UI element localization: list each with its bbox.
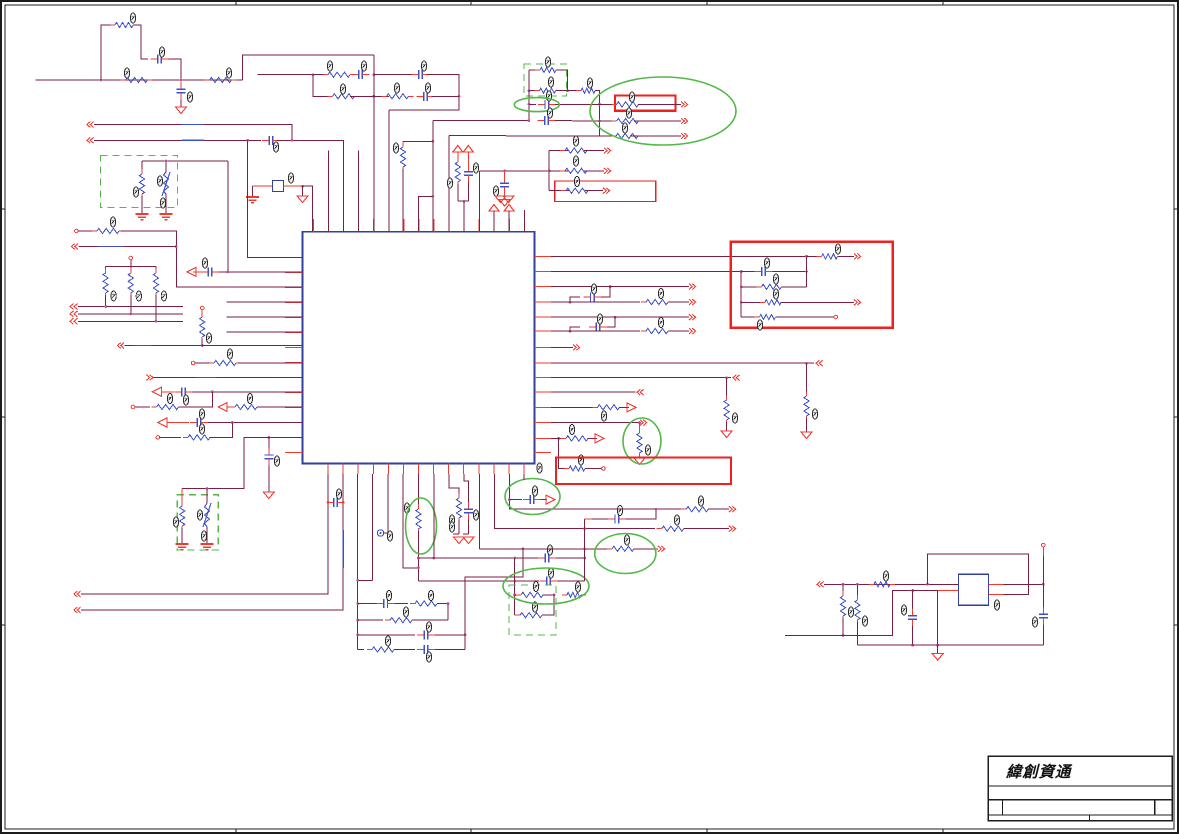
wire rowG gap [600,135,614,137]
ref-label U3 [994,600,999,610]
resistor R4 [323,72,355,77]
wire pull2 a [155,267,157,272]
ref-label L6 [327,61,332,71]
wire vert x584 [584,519,586,581]
wire island right a [1004,583,1044,585]
junction N73 [1042,583,1045,586]
wire net2 row74 left [257,74,313,76]
port-out row528 [729,526,736,532]
resistor R35 [724,395,729,425]
resistor R46 [515,613,547,618]
wire long vertical x374 [373,55,375,232]
node open3 [200,306,204,310]
wire row581 a [418,580,539,582]
ref-label L78 [449,522,454,532]
wire row363 b [238,362,303,364]
ref-label L38 [227,349,232,359]
port-in arrow bus1 [87,122,94,128]
wire hang1 b [806,418,808,432]
wire g2 top a [529,69,540,71]
wire pin448 b [458,520,460,534]
ref-label L31 [473,163,478,173]
wire rrow363 [551,362,814,364]
wire pin418 b [417,531,419,581]
junction N17 [548,169,551,172]
wire rowG [449,135,600,137]
wire sq pin1R red [989,583,1004,585]
arrow-left row407b [218,403,227,412]
wire hang3 a [639,423,641,432]
wire pin448 jog [449,474,459,495]
junction N41 [805,362,808,365]
wire ir1 b [842,618,844,635]
wire rrow3 gap [741,286,758,288]
junction N10 [301,185,304,188]
wire g1 v bottom [165,194,167,213]
wire sq pin2R red [989,594,1004,596]
highlight ellipse small1 [514,98,559,112]
resistor R45 [562,592,586,597]
junction N50 [522,547,525,550]
wire pwr2 down [467,152,469,165]
ref-label L60 [645,445,650,455]
junction N23 [227,271,230,274]
port-out rrow422 [640,420,647,426]
highlight ellipse big1 [590,77,736,145]
ref-label L32 [110,217,115,227]
capacitor C25 [523,495,541,504]
junction N44 [557,437,560,440]
junction N20 [432,195,435,198]
arrow rrow438 [595,434,604,443]
junction N11 [528,89,531,92]
wire long vertical x228 [227,161,229,272]
wire x403 top [402,141,404,144]
wire rbox left vert [740,272,742,318]
highlight red box3 [556,458,731,485]
capacitor C11 [201,267,219,276]
resistor R11 [612,102,644,107]
capacitor C7 [538,100,556,109]
wire vert x313 to row96 [313,75,330,97]
resistor R18 [455,157,460,187]
ref-label L51 [757,320,762,330]
wire midrow2 left [480,170,550,172]
wire bridge518 a [585,518,592,520]
resistor R27 [183,435,215,440]
bus entry arrows [70,304,78,325]
capacitor C19 [417,630,435,639]
ref-label L89 [1032,617,1037,627]
resistor R22 [153,268,158,298]
resistor R41 [385,618,417,623]
wire row528 b [684,528,729,530]
wire rvert x806 [806,256,808,286]
wire row509 a [520,508,686,510]
junction N14 [598,120,601,123]
wire midrow2 a [549,170,568,172]
resistor R12 [612,118,644,123]
wire midrow2 b [584,170,604,172]
junction N67 [856,583,859,586]
resistor R9 [535,88,561,93]
resistor R14 [560,148,592,153]
ref-label L87 [862,616,867,626]
node open8 [602,467,606,471]
resistor R52 [855,595,860,625]
ref-label L62 [578,455,583,465]
title block cell a [1001,800,1003,815]
wire pin509 [508,211,510,232]
wire to gnd arrow [302,186,304,196]
ref-label L14 [157,176,162,186]
component U2 small box [273,181,284,192]
wire rowa left [358,603,377,605]
junction N21 [463,200,466,203]
wire island row2 path [785,591,913,636]
ref-label L50 [773,289,778,299]
ref-label L53 [591,284,596,294]
ref-label L5 [187,92,192,102]
ref-label L79 [624,535,629,545]
junction N26 [155,320,158,323]
connector node blue [377,530,383,536]
resistor R28 [757,284,787,289]
wire row499 a [509,499,522,501]
wire g2 row2 corner down [595,91,600,136]
junction N9 [165,160,168,163]
port-out rrowA [689,284,696,290]
ref-label L25 [573,136,578,146]
resistor R24 [209,360,241,365]
junction N12 [566,89,569,92]
port-in row345 [118,343,125,349]
junction N66 [842,583,845,586]
ref-label L41 [247,394,252,404]
junction N29 [231,421,234,424]
junction N57 [513,580,516,583]
wire row558 a [418,557,538,559]
wire row332 [227,331,303,333]
junction N70 [911,589,914,592]
junction N53 [417,566,420,569]
wire g4 r bot [181,528,183,543]
junction N65 [342,501,345,504]
wire sq to pin313 [303,186,313,232]
wire down to row468 [559,438,568,468]
wire row391 red [161,391,174,393]
ref-label L13 [133,187,138,197]
wire pin494 to row528 [494,474,540,529]
wire row581 b [558,580,585,582]
resistor R19 [92,228,124,233]
port-in row610 [74,607,81,613]
wire rowa corner [437,604,448,621]
ref-label L15 [160,198,165,208]
capacitor C15 [755,267,773,276]
wire vert x449 to pin [448,136,450,232]
ref-label L4 [159,47,164,57]
junction N47 [356,633,359,636]
wire ir1 a [842,584,844,594]
junction N34 [805,255,808,258]
resistor R13 [611,133,643,138]
ref-label L63 [386,591,391,601]
wire group2 feed [182,437,269,488]
wire pin357 vertical [357,474,359,650]
wire row104 d [638,103,681,105]
junction N58 [513,594,516,597]
resistor R21 [128,268,133,298]
port-out midrow2 [604,168,611,174]
ground bars2 [160,213,173,221]
wire rrow1 [551,255,807,257]
wire midrow3 a [549,190,569,192]
junction N42 [725,376,728,379]
port-out rrow347 [573,345,580,351]
ground arrow5 [263,492,274,499]
junction N6 [372,95,375,98]
ref-label L27 [574,177,579,187]
highlight ellipse hang3 [623,418,661,464]
wire rrow3 [782,286,807,288]
net-name V4 [134,345,151,347]
resistor R26 [230,404,262,409]
wire rowc a [358,634,415,636]
resistor R49 [657,526,689,531]
capacitor C9 [500,176,509,194]
wire hang3 b [639,455,641,458]
junction N13 [598,103,601,106]
ref-label L52 [835,244,840,254]
wire pin row257 long vertical [248,140,303,257]
junction N59 [553,594,556,597]
net-name vertical pin343 [342,530,344,568]
wire vert x514 [514,558,516,615]
ref-label L37 [206,333,211,343]
ref-label L65 [403,607,408,617]
wire loop left [101,25,114,80]
capacitor C4 [412,70,430,79]
resistor R50 [681,507,713,512]
junction N38 [569,301,572,304]
wire rrowA [551,286,689,288]
wire gnd island [937,645,939,653]
wire rowE mid [555,120,600,122]
power arrow1 [452,146,463,153]
ref-label L54 [658,289,663,299]
wire b3row1 c [581,594,585,596]
wire pull1 a [130,267,132,272]
resistor R42 [367,647,399,652]
wire pwr bar [458,200,469,202]
wire row363 a [195,362,213,364]
wire bus a [78,306,183,308]
wire pull2 b [155,295,157,321]
ref-label L16 [288,173,293,183]
wire row74 cont [374,74,414,76]
ref-label L30 [447,178,452,188]
wire row549 b [634,548,658,550]
wire row499 b [541,499,547,501]
wire loop corner [133,25,148,59]
svg-text:緯創資通: 緯創資通 [1005,763,1073,781]
wire rrowD b [668,330,689,332]
junction N72 [936,644,939,647]
wire pin464 jog [464,474,469,503]
wire row549 a [479,548,609,550]
wire pwr1 down [457,152,459,160]
ground arrow6 [801,432,812,439]
wire b3row2 a [515,614,519,616]
capacitor C18 [377,599,395,608]
ref-label L70 [404,503,409,513]
title block cell b [1154,800,1156,815]
wire sq right [284,185,303,187]
junction N46 [356,619,359,622]
wire ir2 a [856,584,858,598]
wire g2 top loop [556,70,568,91]
ref-label L7 [361,61,366,71]
ref-label L64 [428,591,433,601]
ref-label L72 [548,568,553,578]
port-out midrow3 [603,188,610,194]
wire island rail [857,644,1043,646]
wire midrow3 b [585,190,603,192]
ref-label GP [537,463,542,473]
resistor R25 [152,404,184,409]
wire row96 to x459 [432,95,459,97]
title block cell c [1088,815,1090,821]
ref-label L71 [547,545,552,555]
net-name V1 [182,124,204,126]
junction N7 [246,139,249,142]
wire g4 v bot [206,527,208,543]
wire midrow1 b [584,150,604,152]
ref-label L45 [173,517,178,527]
wire midrow1 a [549,150,568,152]
wire staircase [465,549,523,650]
wire right vert c [1042,625,1044,645]
ref-label L86 [848,607,853,617]
wire row345 a [125,345,203,347]
capacitor C27 [1039,607,1048,625]
highlight ellipse row499 [505,479,560,515]
wire rrow438 a [551,437,563,439]
wire row468 b [585,468,602,470]
ref-label L10 [394,83,399,93]
resistor R10 [576,88,600,93]
wire rrow392 [551,391,636,393]
ground arrow3a [495,196,506,203]
wire rrowB a [551,301,640,303]
wire row246 [79,246,177,248]
ref-label L11 [425,83,430,93]
resistor R16 [561,188,593,193]
ref-label L85 [883,571,888,581]
wire loop to junction [169,59,182,80]
wire r345 top [201,310,203,315]
ground bars1 [136,213,149,221]
wire row558 b [556,557,585,559]
resistor R23 [200,312,205,342]
wire row104 b [555,103,600,105]
wire b3row2 corner [542,595,554,615]
junction N24 [104,305,107,308]
resistor R47 [456,493,461,523]
wire row104 c [600,103,618,105]
ref-label L48 [764,258,769,268]
resistor R53 [869,582,895,587]
wire right vert b [1042,556,1044,609]
wire rowE left [433,120,529,122]
node open6 [156,436,160,440]
ref-label L12 [273,142,278,152]
ref-label L67 [385,636,390,646]
ground arrow3b [503,196,514,203]
title block row line2 [988,799,1172,801]
ref-label L19 [587,78,592,88]
junction N55 [513,557,516,560]
port-out rrow4 [854,299,861,305]
wire pin524 [523,210,525,232]
resistor R8 [535,67,561,72]
junction N51 [356,579,359,582]
ref-label L20 [546,91,551,101]
resistor R29 [760,300,786,305]
junction N69 [842,634,845,637]
ref-label L17 [545,57,550,67]
wire pin494 [493,211,495,232]
port-out row509 [729,506,736,512]
IC U1 main chip body [303,232,535,464]
wire row437 a [160,436,182,438]
power arrow3 [489,205,500,212]
dashed box group1 [101,156,178,208]
net-name V5 [197,377,216,379]
highlight red box big [731,242,893,328]
ref-label L34 [111,291,116,301]
wire row302 [227,301,303,303]
wire pwr2 bot [467,183,469,202]
resistor R38 [561,436,593,441]
wire rowd mid [394,649,415,651]
wire rowd b [435,649,465,651]
wire sq pin2 red [938,590,959,592]
wire conn jog [384,532,389,534]
wire row437 up [210,423,232,438]
wire hang2 a [726,378,728,398]
junction N37 [609,285,612,288]
junction N61 [583,527,586,530]
ref-label L46 [197,510,202,520]
ref-label L2 [226,68,231,78]
wire row345 b [202,345,302,347]
port-in arrow bus2 [87,137,94,143]
wire pin510 to row509 [509,474,520,509]
wire rrowC [551,316,689,318]
port-in rrow377 [733,375,740,381]
ref-label L83 [532,486,537,496]
port-out rowE [681,118,688,124]
ref-label L82 [698,496,703,506]
port-out row104 [681,102,688,108]
junction N60 [583,547,586,550]
arrow row499 [546,495,555,504]
ground bars3 [246,196,259,204]
capacitor C5 [417,92,435,101]
wire row231 to pin287 [121,231,303,287]
